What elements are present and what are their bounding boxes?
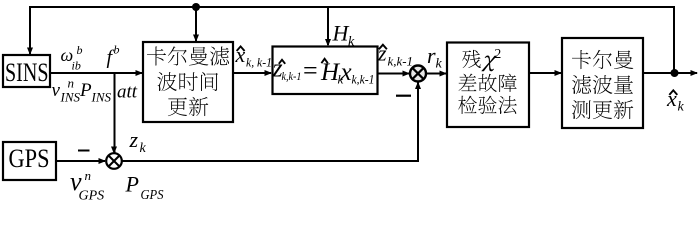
- label block1 line2 波时间: [157, 72, 218, 91]
- label minus at residual junction: [396, 95, 411, 97]
- wire z_k riser up to residual junction: [417, 83, 419, 163]
- block residual chi-square fault detection: [447, 43, 529, 128]
- wire feedback drop to time-update block: [195, 7, 197, 41]
- arrowhead into GPS summing junction top: [111, 147, 117, 155]
- arrowhead into residual junction left: [403, 71, 411, 77]
- label x_hat_k_k-1: [235, 42, 273, 70]
- svg-text:k, k-1: k, k-1: [246, 55, 272, 70]
- arrowhead into measurement-prediction block left: [265, 70, 273, 76]
- arrowhead into residual junction bottom: [415, 82, 421, 90]
- label block3 line3 检验法: [458, 96, 517, 114]
- wire SINS to time-update block: [50, 72, 142, 74]
- label att: [117, 82, 138, 103]
- label SINS: [5, 58, 49, 87]
- wire time-update to measurement-prediction block: [233, 72, 271, 74]
- svg-text:k: k: [436, 57, 443, 72]
- label omega_ib^b: [61, 43, 83, 73]
- arrowhead into time-update block top: [193, 35, 199, 43]
- svg-text:GPS: GPS: [79, 189, 105, 202]
- svg-text:z: z: [129, 127, 139, 152]
- label block1 line1 卡尔曼滤: [147, 46, 229, 65]
- svg-text:=: =: [303, 56, 318, 85]
- wire feedback drop to SINS: [29, 7, 31, 54]
- wire measurement-prediction block to residual junction: [378, 73, 409, 75]
- label GPS: [9, 144, 50, 173]
- svg-text:k: k: [678, 100, 685, 115]
- svg-text:v: v: [52, 80, 61, 101]
- label z_k: [129, 127, 147, 156]
- summing junction residual (gray): [410, 66, 426, 82]
- label block1 line3 更新: [168, 97, 208, 116]
- label block4 line2 滤波量: [572, 75, 633, 94]
- svg-text:2: 2: [495, 46, 502, 61]
- wire H_k drop to measurement-prediction block: [327, 7, 329, 45]
- label x_hat_k output: [666, 86, 685, 115]
- label H_k top: [332, 21, 356, 50]
- svg-text:GPS: GPS: [9, 144, 50, 173]
- block Kalman filter time update: [143, 42, 233, 122]
- block SINS: [3, 55, 50, 87]
- label r_k: [427, 43, 443, 72]
- block measurement prediction z=Hx: [273, 47, 378, 95]
- arrowhead into chi-square block left: [440, 71, 448, 77]
- wire branch down from INS bus to GPS summing junction: [114, 73, 116, 153]
- svg-text:k: k: [140, 141, 147, 156]
- label block3 line1 残: [462, 50, 481, 68]
- label block3 chi squared: [481, 46, 501, 71]
- label block3 line2 差故障: [459, 74, 517, 92]
- svg-text:INS: INS: [60, 90, 81, 105]
- svg-text:n: n: [68, 76, 75, 91]
- arrowhead into measurement-update block left: [555, 70, 563, 76]
- block Kalman filter measurement update: [562, 38, 643, 128]
- svg-text:z: z: [377, 41, 387, 66]
- summing junction GPS: [106, 153, 122, 169]
- label v_INS^n: [52, 76, 81, 105]
- svg-text:k: k: [348, 35, 355, 50]
- wire feedback riser from output node: [673, 7, 675, 73]
- label f^b: [107, 43, 120, 69]
- label minus at GPS junction: [78, 150, 90, 152]
- svg-text:P: P: [125, 172, 139, 197]
- svg-text:x: x: [340, 59, 352, 86]
- block GPS: [3, 142, 56, 180]
- svg-text:ib: ib: [72, 59, 81, 73]
- label P_GPS: [125, 172, 164, 204]
- svg-text:att: att: [117, 82, 138, 103]
- arrowhead into GPS summing junction left: [99, 158, 107, 164]
- svg-text:GPS: GPS: [141, 188, 164, 201]
- svg-text:b: b: [114, 43, 120, 57]
- wire residual junction to chi-square block: [426, 73, 446, 75]
- junction dot at output node: [671, 69, 679, 77]
- label formula z_hat = H_k x_k,k-1: [272, 54, 375, 87]
- svg-text:n: n: [85, 168, 92, 183]
- svg-text:P: P: [79, 80, 92, 101]
- arrowhead into measurement-prediction block top: [325, 39, 331, 47]
- label z_hat_k_k-1: [377, 41, 413, 69]
- wire GPS to GPS summing junction: [56, 160, 105, 162]
- wire measurement-update block to output: [643, 72, 697, 74]
- svg-text:INS: INS: [91, 90, 112, 105]
- arrowhead output x_k: [691, 70, 699, 76]
- label v_GPS^n: [70, 167, 104, 204]
- svg-text:H: H: [332, 21, 350, 46]
- label P_INS: [79, 80, 112, 105]
- arrowhead into SINS top: [27, 48, 33, 56]
- svg-text:x: x: [666, 86, 677, 111]
- svg-text:k,k-1: k,k-1: [388, 54, 414, 69]
- svg-text:k,k-1: k,k-1: [352, 72, 375, 87]
- wire top feedback line: [29, 6, 675, 8]
- svg-text:k,k-1: k,k-1: [282, 69, 302, 83]
- wire chi-square block to measurement-update block: [529, 72, 561, 74]
- label block4 line3 测更新: [572, 100, 633, 119]
- wire z_k from GPS summing junction to corner: [121, 160, 419, 162]
- arrowhead into time-update block left: [136, 70, 144, 76]
- svg-text:b: b: [77, 43, 83, 57]
- svg-text:SINS: SINS: [5, 58, 49, 87]
- label block4 line1 卡尔曼: [572, 50, 633, 69]
- junction dot at top line x=196: [192, 3, 200, 11]
